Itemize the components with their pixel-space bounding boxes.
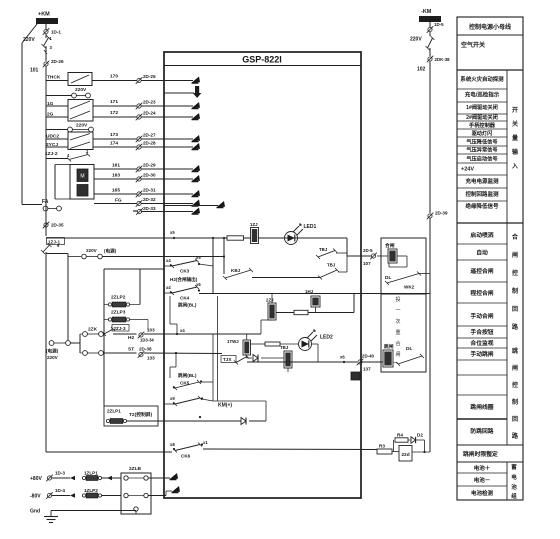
wire [429, 48, 431, 56]
wire [338, 271, 347, 273]
svg-text:1D-3: 1D-3 [55, 471, 65, 476]
terminal FA a [43, 206, 48, 211]
terminal source b [66, 341, 71, 346]
svg-text:x6: x6 [196, 282, 201, 287]
svg-text:CK4: CK4 [180, 296, 190, 301]
contact CK3 [170, 259, 199, 269]
contact TBJ b [318, 268, 339, 280]
wire 137 row [247, 361, 357, 363]
svg-text:一: 一 [395, 308, 400, 314]
svg-text:ST: ST [128, 347, 134, 353]
wire 1HJ drop [315, 307, 317, 313]
arrow input 2D-31 [192, 190, 201, 197]
svg-text:重: 重 [395, 329, 400, 336]
wire KM row [213, 400, 266, 402]
riser x217 [217, 296, 219, 401]
svg-text:电: 电 [511, 473, 517, 481]
terminal 1D-3 [46, 475, 53, 482]
contact 1ZJ-1 [41, 243, 52, 254]
node tap [175, 352, 177, 354]
wire to 2ZK [71, 342, 81, 344]
wire step [170, 323, 177, 325]
wire [336, 252, 347, 254]
svg-text:制: 制 [512, 287, 518, 295]
junction a [212, 237, 214, 239]
contact CK7 [173, 396, 202, 406]
terminal 2ZK 1 [83, 332, 88, 337]
2ZLB terminal [124, 493, 128, 497]
svg-text:220V: 220V [86, 248, 98, 253]
terminal FA b [57, 206, 62, 211]
svg-text:TBJ: TBJ [327, 263, 336, 268]
svg-text:系统火灾自动探测: 系统火灾自动探测 [460, 75, 504, 83]
svg-text:107: 107 [363, 261, 371, 266]
wire 174 [93, 146, 137, 148]
terminal 2D-27 [136, 136, 143, 143]
arrow solid down [193, 86, 202, 98]
wire 165 [94, 193, 137, 195]
2ZLB terminal [134, 507, 138, 511]
svg-text:x5: x5 [170, 230, 175, 235]
fuse 1ZLP1 [82, 476, 101, 481]
riser x213 [212, 238, 214, 293]
busbar +KM [36, 18, 58, 24]
svg-text:2D-25: 2D-25 [143, 74, 156, 79]
wire -80 [52, 495, 70, 497]
svg-text:控: 控 [512, 381, 518, 389]
close coil HC [388, 249, 397, 263]
resistor R3 [377, 449, 392, 454]
relay coil 1HJ [311, 296, 320, 307]
svg-text:2D-39: 2D-39 [435, 211, 448, 216]
svg-text:闸: 闸 [512, 251, 518, 259]
svg-text:电池＋: 电池＋ [474, 464, 491, 472]
trip coil TC [383, 350, 393, 367]
wire source row to riser [103, 256, 225, 258]
svg-text:220V: 220V [410, 37, 422, 43]
wire CK3 [164, 265, 171, 267]
wire row THCK [46, 80, 68, 82]
svg-text:跳闸: 跳闸 [384, 343, 394, 350]
svg-text:H2: H2 [128, 335, 134, 341]
svg-text:次: 次 [395, 318, 400, 325]
svg-text:2DK-38: 2DK-38 [435, 57, 451, 62]
svg-text:空气开关: 空气开关 [461, 41, 485, 49]
terminal 2D-23 [136, 103, 143, 110]
wire TWJ out [247, 357, 252, 359]
wire to TBJ [261, 357, 284, 359]
wire corner down [346, 238, 348, 256]
diode D1 [253, 355, 258, 362]
svg-text:x5: x5 [196, 255, 201, 260]
contact DL a [385, 272, 421, 286]
svg-text:2D-35: 2D-35 [51, 223, 64, 228]
svg-text:163: 163 [112, 172, 120, 178]
branch down [424, 440, 426, 452]
wire TBJ bottom [287, 368, 289, 372]
table col label 合闸控制回路 [512, 233, 519, 331]
wire y238 outside [46, 237, 164, 239]
wire LED1 row [164, 237, 347, 239]
resistor R5 [265, 342, 280, 346]
svg-text:绝缘降低信号: 绝缘降低信号 [465, 202, 499, 210]
wire into box [141, 203, 193, 205]
fuse 1ZLP2 [82, 493, 101, 498]
contact 2ZK [102, 327, 115, 336]
contact KBJ [223, 268, 253, 280]
bottom rail left [46, 451, 172, 453]
block 22d [399, 446, 412, 462]
node y417 [199, 416, 201, 418]
svg-text:TBJ: TBJ [280, 345, 289, 350]
terminal ST 4 [99, 351, 104, 356]
spring motor box [70, 165, 94, 200]
svg-text:2ZLB: 2ZLB [129, 466, 142, 472]
contact TJ [234, 355, 249, 365]
wire step down [176, 324, 178, 334]
wire to riser [201, 381, 213, 383]
svg-text:2D-28: 2D-28 [143, 141, 156, 146]
wire left riser x104 [103, 269, 105, 406]
svg-text:2ZJ-3: 2ZJ-3 [114, 326, 126, 331]
svg-text:1D3-34: 1D3-34 [140, 338, 154, 343]
svg-text:合: 合 [512, 233, 519, 241]
arrow input 2D-28 [192, 143, 201, 150]
junction arrow [70, 476, 75, 480]
svg-text:控: 控 [512, 269, 518, 277]
far-left neutral wire [21, 43, 23, 205]
wire 163 [94, 178, 137, 180]
svg-text:池: 池 [511, 483, 517, 491]
arrow input 2D-25 [192, 77, 201, 84]
bracket [79, 334, 81, 353]
wire down [147, 320, 149, 331]
svg-text:KBJ: KBJ [231, 268, 241, 273]
wire 170 [92, 80, 137, 82]
contact DL b [396, 354, 424, 366]
svg-text:跳闸线圈: 跳闸线圈 [470, 403, 493, 411]
contact box THCK [68, 73, 92, 86]
diode D2 [411, 437, 416, 443]
label box 1ZJ-1 [47, 238, 65, 245]
svg-text:137: 137 [363, 367, 371, 372]
terminal 2D-30 [136, 176, 143, 183]
svg-text:2#阀驱动关闭: 2#阀驱动关闭 [466, 113, 498, 121]
wire into box [141, 80, 193, 82]
svg-text:T2(控制屏): T2(控制屏) [129, 411, 153, 418]
svg-text:控制电源小母线: 控制电源小母线 [469, 23, 511, 31]
svg-text:+24V: +24V [461, 167, 474, 173]
svg-text:R4: R4 [397, 433, 403, 438]
wire [412, 451, 430, 453]
svg-text:171: 171 [110, 99, 118, 105]
2ZLB terminal [124, 476, 128, 480]
motor M [77, 169, 88, 182]
svg-text:电池－: 电池－ [474, 476, 491, 484]
terminal block 2ZLB [121, 473, 151, 514]
terminal 4 [86, 93, 91, 98]
svg-text:1D-4: 1D-4 [55, 488, 65, 493]
svg-text:-KM: -KM [421, 9, 432, 15]
svg-text:跳: 跳 [512, 347, 518, 355]
wire 2G [46, 116, 68, 118]
node x5 [173, 237, 175, 239]
wire 102 down a [429, 62, 431, 214]
svg-text:1D-5: 1D-5 [434, 22, 444, 27]
tick [133, 210, 137, 212]
contact blade UDC2 [70, 134, 90, 141]
wire 2ZJ drop [260, 320, 262, 334]
wire to FA [22, 204, 42, 206]
left rail down [45, 252, 47, 452]
riser x224 [223, 238, 225, 274]
contact TBJ a [316, 249, 337, 260]
wire CK4 [164, 292, 171, 294]
svg-text:2D-5: 2D-5 [363, 248, 373, 253]
svg-text:2D-26: 2D-26 [51, 59, 64, 64]
resistor R4 [395, 438, 408, 442]
bottom rail right [203, 448, 377, 451]
wire 173 [93, 138, 137, 140]
fuse 2ZLP1 [106, 419, 126, 424]
svg-text:手柄控制器: 手柄控制器 [469, 121, 496, 129]
wire +KM down [45, 24, 47, 29]
svg-text:101: 101 [30, 68, 39, 74]
table col label 开关量输入 [511, 106, 519, 170]
wire tie [346, 253, 348, 272]
terminal 1D-4 [46, 492, 53, 499]
svg-text:遥控合闸: 遥控合闸 [470, 267, 493, 275]
wire link b [73, 129, 89, 131]
close coil compartment [381, 238, 426, 294]
contact 1ZJ-2 [67, 153, 90, 162]
terminal 2D-25 [136, 77, 143, 84]
svg-text:22d: 22d [401, 452, 409, 458]
svg-text:1TWJ: 1TWJ [227, 339, 239, 344]
wire +80 [52, 477, 70, 479]
contact CK6 [173, 443, 202, 453]
arrow y205 [217, 201, 226, 208]
svg-text:回: 回 [512, 305, 518, 313]
coil loop [388, 263, 390, 267]
svg-text:2ZJ: 2ZJ [266, 298, 274, 303]
wire to riser [249, 420, 266, 422]
svg-text:合闸: 合闸 [385, 242, 395, 249]
riser x354 [353, 294, 355, 313]
svg-text:2D-32: 2D-32 [143, 197, 156, 202]
svg-text:程控合闸: 程控合闸 [469, 289, 493, 297]
svg-text:投: 投 [395, 296, 400, 303]
breaker 1DK pole b [44, 50, 47, 54]
svg-text:跳闸(BL): 跳闸(BL) [178, 372, 197, 379]
terminal 2D-35 [43, 222, 50, 229]
arrow input 2D-29 [192, 165, 201, 172]
wire [429, 32, 431, 36]
wire out 107 [347, 255, 371, 257]
svg-text:102: 102 [417, 67, 426, 73]
terminal source2 [98, 254, 103, 259]
wire 2ZLB out b [149, 495, 167, 497]
svg-text:220V: 220V [76, 123, 88, 129]
wire to trip coil [363, 361, 384, 363]
wire source stub [68, 256, 81, 258]
svg-text:1HJ: 1HJ [305, 289, 314, 294]
arrow input 2D-24 [192, 113, 201, 120]
fuse 2ZLP3 [108, 317, 129, 322]
svg-text:2D-23: 2D-23 [143, 100, 156, 105]
resistor R2 [294, 310, 308, 314]
label 投一次重合闸 vertical [395, 296, 400, 358]
terminal source1 [82, 254, 87, 259]
relay coil 2ZJ [268, 303, 276, 320]
svg-text:组: 组 [511, 492, 517, 500]
svg-text:(电源): (电源) [46, 348, 59, 355]
svg-text:-80V: -80V [30, 494, 41, 500]
wire TWJ top [246, 334, 248, 340]
wire FA link [48, 208, 57, 210]
svg-text:2ZLP1: 2ZLP1 [107, 409, 121, 414]
svg-text:闸: 闸 [395, 351, 400, 358]
svg-text:蓄: 蓄 [511, 463, 517, 471]
ground wire [51, 510, 136, 512]
resistor R1 [227, 236, 244, 240]
svg-text:M: M [80, 174, 84, 180]
wire y278 [252, 277, 320, 279]
svg-text:自动: 自动 [476, 249, 488, 257]
relay coil TBJ [284, 351, 292, 368]
svg-text:GSP-822I: GSP-822I [242, 55, 282, 65]
wire into box [141, 211, 193, 213]
svg-text:启动喷洒: 启动喷洒 [470, 231, 493, 239]
svg-text:气压启动信号: 气压启动信号 [465, 155, 497, 163]
contact blade 2YCJ [70, 142, 90, 149]
svg-text:闸: 闸 [512, 364, 518, 372]
svg-text:174: 174 [110, 141, 118, 147]
wire KM [164, 403, 175, 405]
wire into box [141, 116, 193, 118]
svg-text:1D-1: 1D-1 [51, 30, 61, 35]
contact CK5 [173, 380, 201, 390]
svg-text:量: 量 [512, 134, 518, 142]
contact box 1G 2G [68, 100, 93, 122]
wire 2ZLB out a [149, 477, 171, 479]
wire into box [141, 146, 193, 148]
wire 1G [46, 105, 68, 107]
svg-text:开: 开 [512, 106, 518, 114]
svg-text:1ZJ-2: 1ZJ-2 [45, 151, 58, 157]
LED2 [299, 329, 318, 351]
svg-text:LED2: LED2 [320, 335, 333, 341]
svg-text:x6: x6 [340, 355, 345, 360]
terminal 1D-5 [427, 26, 434, 33]
wire -80 b [102, 495, 121, 497]
wire return riser [265, 401, 267, 421]
svg-text:回: 回 [512, 415, 518, 423]
wire FG [94, 203, 137, 205]
label box TJX [221, 356, 236, 363]
terminal 2D-5 [370, 253, 377, 260]
terminal 2ZK 2 [99, 332, 104, 337]
terminal source a [49, 341, 54, 346]
terminal 2D-39 [427, 213, 434, 220]
svg-text:D2: D2 [417, 433, 423, 438]
svg-text:x4: x4 [166, 258, 171, 263]
svg-text:合: 合 [395, 340, 400, 347]
svg-text:LED1: LED1 [304, 224, 317, 230]
wire into box [141, 168, 193, 170]
junction arrow [107, 476, 112, 480]
wire row2 [46, 95, 72, 97]
svg-text:关: 关 [512, 120, 518, 128]
svg-text:充电/巡检指示: 充电/巡检指示 [465, 91, 500, 99]
wire row 220Vb [46, 129, 68, 131]
svg-text:173: 173 [110, 132, 118, 138]
svg-text:x4: x4 [166, 285, 171, 290]
svg-text:THCK: THCK [47, 75, 61, 81]
wire into box [141, 138, 193, 140]
arrow input 2D-27 [192, 135, 201, 142]
wire into box [141, 193, 193, 195]
svg-text:H2(合闸输出): H2(合闸输出) [170, 276, 198, 283]
svg-text:2ZLP2: 2ZLP2 [111, 295, 126, 301]
branch up [393, 440, 395, 452]
terminal ST [138, 351, 145, 358]
contact box UDC2 2YCJ [68, 132, 93, 150]
wire LED2 drop [317, 344, 319, 362]
terminal 2D-31 [136, 191, 143, 198]
svg-text:手动合闸: 手动合闸 [470, 312, 493, 320]
wire y312 b [308, 312, 354, 314]
svg-text:防跳回路: 防跳回路 [470, 427, 493, 435]
svg-text:2ZK: 2ZK [88, 327, 98, 333]
svg-text:1#阀驱动关闭: 1#阀驱动关闭 [466, 103, 498, 111]
fuse 2ZLP2 [108, 302, 129, 307]
svg-text:2D-24: 2D-24 [143, 111, 156, 116]
wire ST row into box [144, 352, 222, 355]
svg-text:Gnd: Gnd [30, 509, 40, 515]
svg-text:103: 103 [147, 328, 155, 333]
terminal function table [457, 17, 523, 500]
wire 2ZJ top [271, 294, 273, 304]
svg-text:2D-30: 2D-30 [143, 173, 156, 178]
svg-text:FG: FG [115, 198, 122, 204]
wire [45, 34, 47, 38]
svg-text:DL: DL [406, 346, 412, 352]
svg-text:KM(+): KM(+) [218, 403, 232, 409]
contact CK4 [170, 285, 199, 295]
svg-text:气压降低信号: 气压降低信号 [465, 138, 497, 146]
wire [45, 46, 47, 61]
svg-text:FA: FA [42, 199, 49, 205]
terminal ST 3 [83, 351, 88, 356]
wire diagonal from +KM [22, 24, 37, 43]
svg-text:133: 133 [147, 356, 155, 361]
wire 161 [94, 168, 137, 170]
terminal 1D3-34 [138, 332, 145, 339]
terminal 2D-32 [136, 200, 143, 207]
svg-text:+KM: +KM [38, 12, 50, 18]
terminal 1 [68, 127, 73, 132]
wire +80 b [102, 477, 121, 479]
stub row2 [164, 92, 194, 94]
terminal 2D-26 [43, 61, 50, 68]
wire CK4 drop [169, 296, 171, 324]
wire M bottom [55, 198, 70, 200]
trip coil compartment [381, 294, 426, 372]
wire ST [104, 352, 137, 354]
svg-text:2D-27: 2D-27 [143, 133, 156, 138]
wire T2 out [127, 420, 241, 422]
